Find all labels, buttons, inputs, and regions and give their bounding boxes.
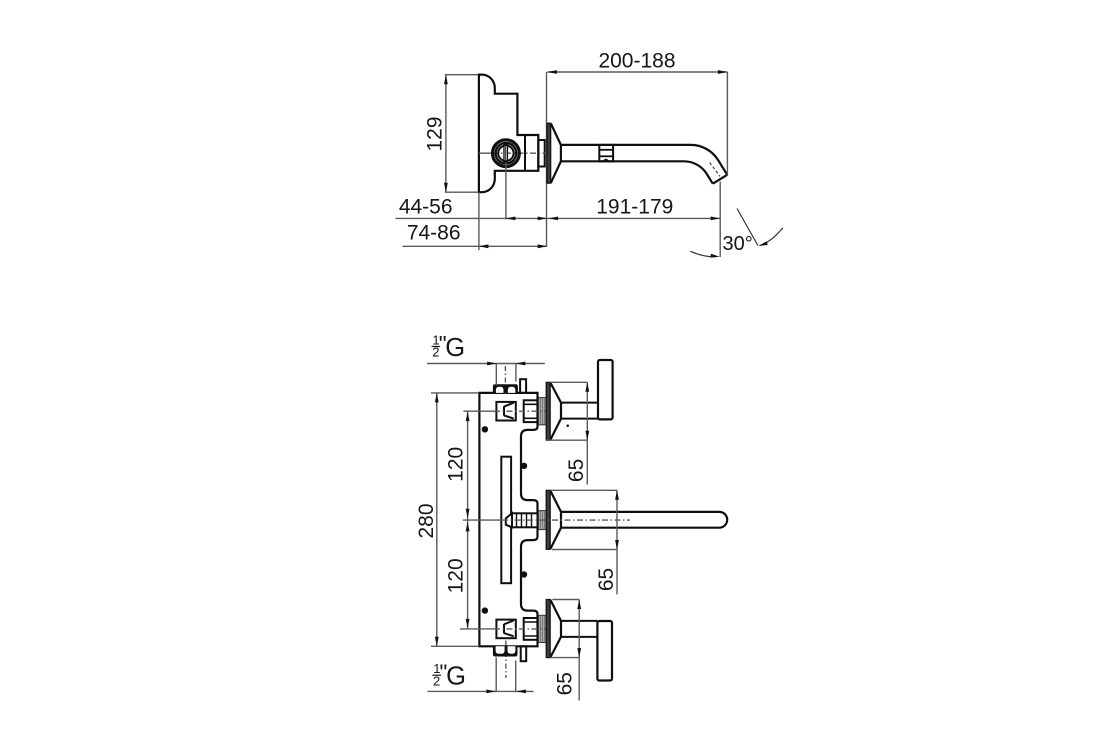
screw dot left bottom xyxy=(482,607,488,613)
valve handle circle outer xyxy=(493,140,520,167)
dimension 200-188 line xyxy=(547,71,727,73)
valve handle circle inner xyxy=(498,146,513,161)
arrow up 120 upper xyxy=(466,412,470,422)
centerline top station xyxy=(463,410,494,412)
centerline of valve axis xyxy=(479,152,493,154)
arrow down 280 xyxy=(435,637,439,647)
spout top edge xyxy=(561,145,727,175)
arrow right 200-188 xyxy=(718,70,728,74)
extension 65 top upper xyxy=(550,381,587,383)
arrow down 120 lower xyxy=(466,619,470,629)
arrow down 120 upper xyxy=(466,509,470,519)
valve handle circle middle xyxy=(496,143,517,164)
svg-text:44-56: 44-56 xyxy=(399,196,453,219)
thread zone top xyxy=(538,398,546,425)
arrow left 44-56 xyxy=(506,216,516,220)
svg-text:280: 280 xyxy=(415,503,438,538)
extension 65 top lower xyxy=(546,439,587,441)
dimension 129 line xyxy=(445,75,447,192)
wire: extension line top of 129 xyxy=(445,74,479,76)
cartridge block left edge xyxy=(524,135,526,171)
escutcheon plate side xyxy=(547,123,551,183)
top inlet nut block xyxy=(493,384,518,393)
svg-text:G: G xyxy=(446,663,466,691)
wire: extension line bottom of 129 xyxy=(445,191,479,193)
extension line handle axis down xyxy=(505,163,507,220)
extension 65 middle lower xyxy=(552,549,617,551)
spout outlet face xyxy=(713,175,727,184)
nut block top xyxy=(524,400,538,422)
nut block bottom xyxy=(524,618,538,640)
valve square bottom xyxy=(496,620,515,639)
escutcheon cone bottom xyxy=(550,600,561,657)
spout nipple middle xyxy=(506,513,512,527)
mounting plate tall rectangle xyxy=(501,457,511,584)
svg-text:65: 65 xyxy=(595,568,618,591)
dimension 65 middle line xyxy=(616,490,618,594)
top inlet centerline xyxy=(504,366,506,397)
spout adjuster block xyxy=(599,145,613,161)
thread zone middle xyxy=(538,511,546,530)
bottom inlet nut block xyxy=(493,646,518,656)
BOTTOM VIEW GROUP xyxy=(415,332,727,701)
arrow up 120 lower xyxy=(466,522,470,532)
arrow right 191-179 xyxy=(711,216,721,220)
extension line body top left xyxy=(431,392,478,394)
dimension 65 bottom line xyxy=(578,600,580,701)
extension 65 middle upper xyxy=(550,489,617,491)
centerline bottom station xyxy=(460,628,494,630)
extension line spout tip top xyxy=(726,72,728,176)
arrow left 74-86 xyxy=(479,244,489,248)
arrow up 280 xyxy=(435,393,439,403)
30 degree arc arrow left xyxy=(690,251,715,257)
extension 65 bottom lower xyxy=(550,657,579,659)
extension line spout tip bottom xyxy=(719,182,721,257)
half inch G leader bottom xyxy=(428,690,534,692)
svg-text:G: G xyxy=(445,334,465,362)
small flange block xyxy=(538,140,544,167)
dimension 120 lower line xyxy=(467,520,469,629)
neck top station xyxy=(561,403,598,419)
dimension 44-56 and 191-179 line xyxy=(396,217,721,219)
spout outlet axis dashed xyxy=(710,163,720,177)
escutcheon cone side xyxy=(551,124,561,183)
handle bottom xyxy=(597,621,612,681)
spout front xyxy=(561,512,727,528)
escutcheon cone top xyxy=(550,383,561,440)
svg-text:74-86: 74-86 xyxy=(407,221,461,244)
neck bottom station xyxy=(561,621,597,637)
adjuster notch xyxy=(603,159,608,161)
arrow right 44-56 xyxy=(538,216,548,220)
dimension 74-86 line xyxy=(403,245,548,247)
dimension 65 top line xyxy=(586,382,588,484)
arrow up 129 xyxy=(444,75,448,85)
svg-text:65: 65 xyxy=(554,672,577,695)
svg-text:129: 129 xyxy=(424,116,447,151)
escutcheon cone middle xyxy=(550,491,561,549)
wall plate outline xyxy=(479,75,538,193)
arrow left 191-179 xyxy=(549,216,559,220)
svg-text:120: 120 xyxy=(444,558,467,593)
dimension 120 upper line xyxy=(467,411,469,520)
svg-text:120: 120 xyxy=(444,447,467,482)
arrow left 200-188 xyxy=(547,70,557,74)
screw dot right bottom xyxy=(521,571,527,577)
extension line body bottom left xyxy=(431,645,478,647)
valve cone symbol top xyxy=(504,403,514,419)
thread zone bottom xyxy=(538,615,546,642)
centerline middle station xyxy=(463,519,502,521)
svg-text:30°: 30° xyxy=(723,233,753,255)
extension line body face down xyxy=(478,192,480,250)
handle top xyxy=(598,360,613,419)
bottom inlet pipe xyxy=(521,646,527,661)
extension 65 bottom upper xyxy=(552,599,579,601)
30 degree reference slant line xyxy=(737,209,758,246)
wall face extension line xyxy=(546,72,548,246)
arrow right 74-86 xyxy=(538,244,548,248)
valve cone symbol bottom xyxy=(504,620,514,636)
adjuster line 1 xyxy=(599,149,613,151)
adjuster line 2 xyxy=(599,155,613,157)
bottom inlet centerline xyxy=(505,641,507,679)
tiny dot artifact xyxy=(566,424,569,427)
label half inch G bottom xyxy=(432,660,466,690)
TOP VIEW GROUP xyxy=(396,49,783,257)
svg-text:65: 65 xyxy=(565,459,588,482)
valve square top xyxy=(496,402,515,421)
escutcheon plate top xyxy=(546,382,550,440)
escutcheon plate middle xyxy=(546,490,550,549)
30 degree arc arrow right xyxy=(761,228,783,246)
screw dot right top xyxy=(521,463,527,469)
svg-text:191-179: 191-179 xyxy=(596,196,673,219)
spout bottom edge xyxy=(561,161,713,183)
half inch G leader top xyxy=(427,363,545,365)
top inlet pipe xyxy=(520,379,526,393)
escutcheon plate bottom xyxy=(546,600,550,658)
svg-text:200-188: 200-188 xyxy=(598,49,675,72)
dimension 280 line xyxy=(436,393,438,646)
body outline front xyxy=(479,393,537,646)
screw dot left top xyxy=(482,426,488,432)
label half inch G top xyxy=(432,332,466,362)
arrow down 129 xyxy=(444,183,448,193)
valve handle slot xyxy=(503,144,508,163)
